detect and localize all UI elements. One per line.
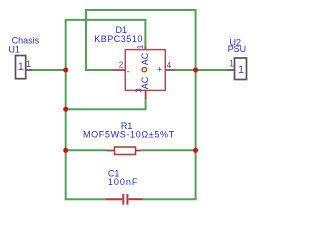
label U2 refdes (230, 38, 242, 48)
junction: right bus / resistor row (193, 148, 198, 153)
D1 pin 2 stub (left) (112, 69, 125, 71)
label Chasis value (12, 36, 40, 46)
wire: D1 pin 3 down and left to left bus (66, 99, 146, 110)
AC label upper (rotated) (140, 52, 150, 65)
svg-text:+: + (157, 65, 162, 75)
junction: right bus / pin4-U2 row (193, 68, 198, 73)
svg-text:-: - (127, 66, 130, 76)
wire: D1 pin 2 branch up and over top inner rail (86, 10, 196, 70)
wire: top outer horizontal to D1 pin 1 (65, 20, 146, 47)
svg-text:100nF: 100nF (108, 177, 139, 187)
junction: left bus / U1 wire (63, 68, 68, 73)
minus sign at pin 2 (127, 66, 130, 76)
svg-text:U1: U1 (8, 44, 20, 54)
label R1 refdes (121, 121, 133, 131)
label MOF5WS-10ohm value (83, 130, 175, 140)
svg-text:2: 2 (119, 60, 124, 69)
D1 pin 4 stub (right) (165, 69, 175, 71)
wire: resistor row left (66, 149, 107, 151)
pin number 1 of U1 (26, 59, 31, 69)
svg-text:1: 1 (229, 59, 234, 69)
svg-text:Chasis: Chasis (12, 36, 40, 46)
svg-text:AC: AC (140, 52, 150, 65)
pin number 4 (167, 61, 172, 70)
pin number 1 of U2 (229, 59, 234, 69)
connector U2 (PSU) body (227, 58, 246, 80)
wire: capacitor row left (65, 198, 106, 200)
wire: right vertical bus (195, 9, 197, 199)
svg-text:KBPC3510: KBPC3510 (94, 34, 143, 44)
svg-text:1: 1 (26, 59, 31, 69)
pin number 1 (top, rotated) (136, 44, 145, 49)
svg-text:1: 1 (18, 61, 24, 73)
label C1 refdes (108, 169, 120, 179)
resistor R1 body (107, 147, 141, 155)
wire: D1 pin 4 to right bus and U2 (175, 69, 228, 71)
connector U1 (Chasis) body (16, 56, 33, 79)
label PSU value (228, 44, 247, 54)
junction: left bus / resistor row (63, 148, 68, 153)
center circle marker of D1 (142, 67, 146, 71)
svg-text:PSU: PSU (228, 44, 247, 54)
svg-text:MOF5WS-10Ω±5%T: MOF5WS-10Ω±5%T (83, 130, 175, 140)
plus sign at pin 4 (157, 65, 162, 75)
capacitor C1 plates (106, 194, 143, 205)
svg-text:1: 1 (136, 44, 145, 49)
label 100nF value (108, 177, 139, 187)
bridge rectifier D1 body (125, 50, 165, 91)
svg-text:4: 4 (167, 61, 172, 70)
svg-text:1: 1 (238, 64, 244, 76)
pin number 2 (119, 60, 124, 69)
pin number 3 (bottom, rotated) (135, 88, 144, 93)
wire: resistor row right (141, 149, 196, 151)
D1 pin 1 stub (top) (144, 46, 146, 49)
wire: left vertical bus (65, 20, 67, 199)
label KBPC3510 value (94, 34, 143, 44)
junction: left bus / pin3 row (63, 107, 68, 112)
wire: U1 pin to left bus (30, 69, 66, 71)
label U1 refdes (8, 44, 20, 54)
label D1 refdes (116, 25, 128, 35)
wire: capacitor row right (143, 198, 197, 200)
svg-text:AC: AC (140, 76, 150, 89)
D1 pin 3 stub (bottom) (145, 90, 147, 99)
AC label lower (rotated) (140, 76, 150, 89)
